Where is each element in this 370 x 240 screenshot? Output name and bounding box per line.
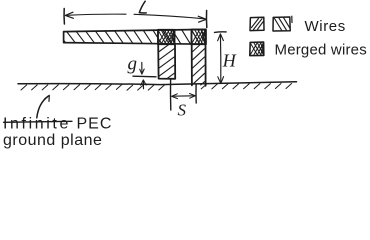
dimension H bottom arrowhead	[218, 77, 224, 84]
dimension L left tick	[63, 9, 65, 25]
label L	[139, 1, 146, 13]
horizontal wire outline	[64, 29, 206, 44]
annotation arrow to ground plane	[37, 96, 49, 118]
dimension g reference line	[133, 75, 156, 78]
dimension H top arrowhead	[218, 34, 224, 41]
dimension L right tick	[205, 11, 207, 28]
svg-text:PEC: PEC	[77, 116, 113, 133]
dimension s left tick	[169, 79, 171, 110]
svg-text:H: H	[222, 51, 237, 71]
svg-text:S: S	[178, 101, 187, 120]
dimension s right tick	[195, 85, 197, 104]
svg-text:ground plane: ground plane	[3, 132, 102, 149]
dimension L left arrowhead	[65, 12, 73, 18]
left vertical wire hatch	[159, 44, 174, 78]
merged wires block 1	[158, 30, 175, 44]
dimension L right arrowhead	[198, 16, 206, 22]
legend merged wires square	[250, 42, 264, 56]
dimension H arrow line	[219, 34, 221, 83]
dimension g up arrow	[142, 81, 144, 89]
merged wires block 2	[192, 30, 206, 45]
legend wires square 1	[250, 17, 264, 30]
dimension L line	[67, 14, 127, 15]
crossbar stroke through Infinite	[4, 121, 73, 122]
dimension s arrow line	[172, 95, 195, 97]
dimension H top tick	[215, 31, 227, 34]
right vertical wire outline	[192, 44, 206, 86]
legend wires square 2	[273, 16, 292, 31]
right vertical wire hatch	[193, 44, 205, 85]
horizontal wire hatch	[64, 30, 205, 44]
dimension g down arrow	[141, 63, 143, 74]
ground plane hatching	[21, 84, 292, 91]
svg-text:Merged wires: Merged wires	[275, 42, 367, 59]
svg-text:g: g	[128, 54, 138, 75]
infinite PEC ground plane line	[18, 82, 297, 85]
svg-text:Wires: Wires	[305, 18, 346, 35]
svg-text:Infinite: Infinite	[3, 116, 71, 133]
left vertical wire outline	[158, 44, 175, 79]
